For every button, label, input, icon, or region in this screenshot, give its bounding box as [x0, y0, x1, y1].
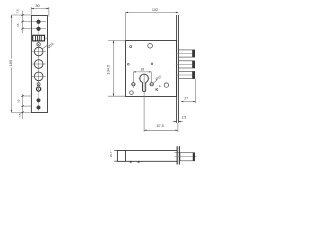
bolt tail line inside body — [174, 152, 180, 154]
small dark hole C2 — [37, 106, 41, 110]
svg-text:180: 180 — [8, 59, 13, 66]
tiny dot near logo — [159, 86, 160, 87]
screw hole S2 — [37, 27, 41, 31]
svg-text:2.5: 2.5 — [182, 115, 187, 119]
dot mid-left — [127, 63, 129, 65]
ring hole — [37, 87, 41, 91]
svg-text:15: 15 — [16, 99, 20, 103]
faceplate plate outline — [31, 15, 47, 112]
fixing hole right of cylinder — [149, 83, 154, 86]
lock body side view — [126, 150, 178, 161]
hole top-center — [148, 43, 153, 48]
small bullseye hole — [37, 83, 40, 86]
label Ø10 with leader — [153, 74, 162, 83]
svg-text:7.5: 7.5 — [15, 9, 19, 14]
label Ø16 with leader — [42, 42, 55, 50]
tab 1 under body — [130, 161, 132, 162]
bolt 3 — [176, 71, 195, 78]
svg-text:67.5: 67.5 — [157, 124, 164, 128]
big hole B2 — [32, 58, 46, 70]
dimension 27 (bolt throw) — [181, 79, 195, 104]
hole right of logo — [164, 83, 168, 87]
dimension 18 (above cylinder) — [133, 68, 151, 83]
svg-text:30: 30 — [35, 4, 39, 8]
dimension 104.5 (left of case) — [106, 41, 126, 97]
small dark hole C1 — [37, 99, 41, 103]
dimension 67.5 (backset) — [144, 123, 178, 132]
euro cylinder keyhole — [139, 74, 150, 91]
dimension 180 (far left) — [8, 15, 31, 113]
svg-text:7.5: 7.5 — [18, 113, 22, 118]
faceplate cross-section (side view) — [177, 146, 179, 164]
tab 2 under body — [138, 161, 140, 162]
dimension 30 (top) — [31, 4, 49, 17]
bolt 2 — [176, 61, 195, 68]
svg-text:K: K — [155, 87, 158, 92]
dot mid-center — [151, 63, 153, 65]
svg-text:15.7: 15.7 — [109, 151, 113, 157]
end cap box — [117, 150, 125, 161]
small bullseye hole below latch — [37, 43, 40, 46]
svg-text:15: 15 — [16, 23, 20, 27]
hole bottom-left of case — [130, 91, 134, 95]
big hole B3 — [32, 71, 46, 83]
dimension 2.5 (faceplate thickness) — [173, 115, 187, 122]
plate vertical centerline — [38, 19, 40, 112]
dimension 15.7 (case thickness) — [109, 150, 117, 161]
upper-left dimension stack 7.5 / 15 — [15, 9, 46, 33]
faceplate edge (main view) — [177, 15, 179, 123]
bolt (side view) — [175, 153, 197, 161]
lower-left dimension stack 15 / 7.5 — [16, 94, 31, 119]
cylinder centerline down to 67.5 dim — [143, 73, 145, 132]
svg-text:104.5: 104.5 — [106, 65, 111, 75]
svg-text:27: 27 — [184, 96, 188, 100]
big hole B1 Ø16 — [32, 46, 46, 58]
screw hole S1 — [37, 20, 41, 24]
svg-text:18: 18 — [140, 68, 144, 72]
bolt 1 — [176, 50, 195, 57]
dimension 102 (top) — [126, 8, 179, 41]
latch cutout (hatched) — [31, 35, 47, 41]
svg-text:102: 102 — [152, 8, 158, 12]
lock case outline — [126, 41, 177, 97]
fixing hole left of cylinder — [131, 83, 136, 88]
hole top-left dot — [130, 46, 132, 48]
